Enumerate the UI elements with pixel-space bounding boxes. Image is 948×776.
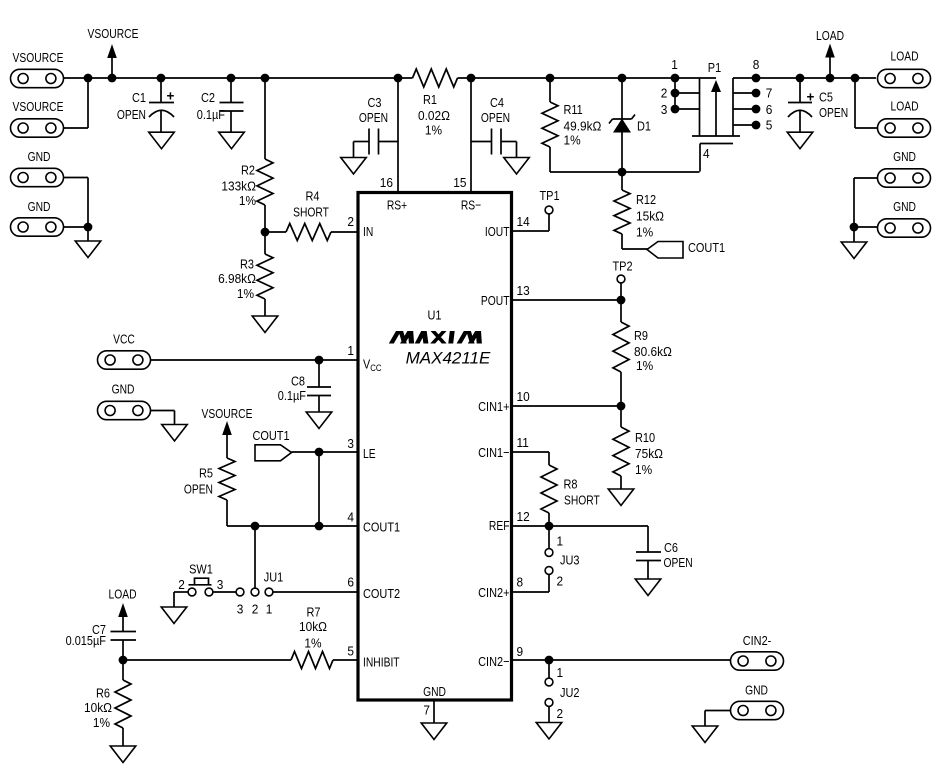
svg-text:1%: 1%	[304, 636, 321, 651]
svg-text:C4: C4	[490, 95, 504, 110]
svg-text:2: 2	[557, 574, 564, 589]
svg-text:OPEN: OPEN	[481, 110, 510, 126]
svg-text:1%: 1%	[239, 193, 256, 208]
svg-text:VSOURCE: VSOURCE	[202, 406, 253, 422]
svg-text:3: 3	[217, 577, 224, 592]
svg-text:LE: LE	[363, 446, 376, 462]
svg-text:LOAD: LOAD	[108, 586, 136, 602]
svg-text:11: 11	[517, 435, 529, 450]
svg-text:+: +	[167, 89, 175, 104]
svg-text:VSOURCE: VSOURCE	[88, 26, 139, 42]
svg-text:R2: R2	[241, 163, 255, 178]
svg-text:RS+: RS+	[387, 197, 407, 213]
svg-text:GND: GND	[893, 199, 916, 215]
svg-text:0.1µF: 0.1µF	[197, 107, 225, 122]
svg-text:GND: GND	[423, 684, 446, 700]
svg-text:GND: GND	[28, 149, 51, 165]
svg-text:1: 1	[557, 665, 564, 680]
svg-text:R3: R3	[240, 257, 254, 272]
svg-text:GND: GND	[112, 381, 135, 397]
svg-text:COUT1: COUT1	[363, 520, 400, 535]
svg-text:R7: R7	[307, 605, 321, 620]
svg-text:C8: C8	[291, 374, 305, 389]
svg-text:CIN2-: CIN2-	[743, 633, 772, 648]
svg-text:15kΩ: 15kΩ	[636, 209, 664, 224]
svg-text:C1: C1	[132, 90, 146, 105]
svg-text:5: 5	[347, 644, 354, 659]
svg-text:C2: C2	[201, 90, 215, 105]
svg-text:2: 2	[178, 577, 185, 592]
svg-text:COUT1: COUT1	[688, 240, 725, 255]
svg-text:TP1: TP1	[539, 188, 559, 203]
svg-text:VCC: VCC	[113, 331, 135, 347]
svg-text:9: 9	[517, 644, 524, 659]
svg-text:POUT: POUT	[481, 293, 510, 309]
svg-text:2: 2	[557, 706, 564, 721]
svg-text:1%: 1%	[564, 133, 581, 148]
svg-text:JU3: JU3	[560, 553, 580, 568]
svg-text:10kΩ: 10kΩ	[84, 700, 112, 715]
svg-text:1%: 1%	[636, 225, 653, 240]
svg-text:+: +	[807, 90, 815, 105]
svg-text:1%: 1%	[635, 462, 652, 477]
svg-text:1: 1	[347, 343, 354, 358]
svg-text:COUT2: COUT2	[363, 586, 400, 601]
svg-text:6: 6	[347, 575, 354, 590]
svg-text:R8: R8	[564, 476, 578, 491]
svg-text:LOAD: LOAD	[890, 48, 918, 64]
svg-text:R9: R9	[634, 328, 648, 343]
svg-text:1%: 1%	[636, 358, 653, 373]
svg-text:MAX4211E: MAX4211E	[406, 348, 491, 367]
svg-text:2: 2	[252, 602, 259, 617]
svg-text:C3: C3	[368, 95, 382, 110]
svg-text:REF: REF	[489, 518, 510, 534]
svg-text:CIN1−: CIN1−	[478, 445, 509, 460]
svg-text:R1: R1	[423, 92, 437, 107]
svg-text:OPEN: OPEN	[819, 105, 848, 121]
svg-text:VSOURCE: VSOURCE	[13, 99, 64, 115]
svg-text:R6: R6	[96, 686, 110, 701]
svg-text:OPEN: OPEN	[117, 107, 146, 123]
svg-text:CIN1+: CIN1+	[478, 399, 509, 414]
svg-text:1%: 1%	[237, 286, 254, 301]
svg-text:RS−: RS−	[461, 197, 481, 213]
svg-text:R5: R5	[199, 466, 213, 481]
svg-text:JU2: JU2	[560, 685, 580, 700]
svg-text:LOAD: LOAD	[890, 98, 918, 114]
svg-text:D1: D1	[637, 119, 651, 134]
svg-text:1%: 1%	[425, 123, 442, 138]
svg-text:LOAD: LOAD	[816, 28, 844, 44]
svg-text:3: 3	[661, 102, 668, 117]
svg-text:INHIBIT: INHIBIT	[363, 654, 400, 670]
svg-text:2: 2	[347, 214, 354, 229]
svg-text:10: 10	[517, 389, 530, 404]
svg-text:1: 1	[266, 602, 273, 617]
svg-text:0.015µF: 0.015µF	[66, 633, 106, 648]
svg-text:2: 2	[661, 86, 668, 101]
svg-text:7: 7	[766, 86, 773, 101]
svg-text:GND: GND	[28, 199, 51, 215]
svg-text:16: 16	[380, 175, 393, 190]
svg-text:0.1µF: 0.1µF	[278, 388, 306, 403]
svg-text:4: 4	[347, 510, 354, 525]
svg-text:COUT1: COUT1	[252, 428, 289, 443]
svg-text:49.9kΩ: 49.9kΩ	[564, 119, 602, 134]
svg-text:VSOURCE: VSOURCE	[13, 50, 64, 66]
svg-text:75kΩ: 75kΩ	[635, 446, 663, 461]
svg-text:1: 1	[671, 57, 678, 72]
svg-text:6: 6	[766, 102, 773, 117]
svg-text:R11: R11	[564, 102, 584, 117]
svg-text:4: 4	[703, 146, 710, 161]
svg-text:TP2: TP2	[612, 259, 632, 274]
svg-text:CIN2−: CIN2−	[478, 654, 509, 669]
svg-text:12: 12	[517, 509, 530, 524]
svg-text:3: 3	[237, 602, 244, 617]
svg-text:0.02Ω: 0.02Ω	[418, 108, 450, 123]
svg-text:SW1: SW1	[189, 562, 213, 577]
svg-text:14: 14	[517, 214, 530, 229]
svg-text:CIN2+: CIN2+	[478, 585, 509, 600]
svg-text:1: 1	[557, 534, 564, 549]
svg-text:R12: R12	[636, 192, 656, 207]
svg-text:8: 8	[517, 575, 524, 590]
svg-text:5: 5	[766, 118, 773, 133]
svg-text:GND: GND	[893, 149, 916, 165]
svg-text:R10: R10	[635, 430, 655, 445]
svg-text:3: 3	[347, 436, 354, 451]
svg-text:133kΩ: 133kΩ	[221, 179, 256, 194]
svg-text:OPEN: OPEN	[184, 481, 213, 497]
svg-text:10kΩ: 10kΩ	[299, 619, 327, 634]
svg-text:IOUT: IOUT	[485, 224, 510, 240]
svg-text:GND: GND	[745, 682, 768, 698]
svg-text:U1: U1	[428, 308, 442, 323]
svg-text:R4: R4	[306, 189, 320, 204]
svg-text:IN: IN	[363, 224, 373, 240]
svg-text:7: 7	[423, 703, 430, 718]
svg-text:C5: C5	[819, 90, 833, 105]
svg-text:OPEN: OPEN	[664, 555, 693, 571]
svg-text:OPEN: OPEN	[359, 110, 388, 126]
svg-text:1%: 1%	[93, 715, 110, 730]
svg-text:JU1: JU1	[264, 570, 284, 585]
svg-text:P1: P1	[708, 60, 722, 75]
svg-text:SHORT: SHORT	[564, 492, 600, 508]
svg-text:8: 8	[753, 57, 760, 72]
svg-text:13: 13	[517, 283, 530, 298]
svg-text:15: 15	[453, 175, 466, 190]
svg-text:SHORT: SHORT	[293, 204, 329, 220]
svg-text:80.6kΩ: 80.6kΩ	[634, 344, 672, 359]
svg-text:C6: C6	[664, 540, 678, 555]
svg-text:6.98kΩ: 6.98kΩ	[218, 271, 256, 286]
